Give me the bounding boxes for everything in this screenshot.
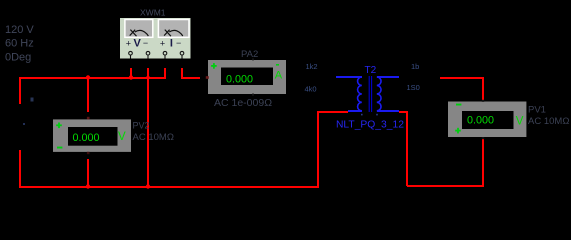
svg-text:1b: 1b <box>411 62 419 71</box>
svg-text:T2: T2 <box>365 65 377 76</box>
svg-text:PV2: PV2 <box>133 121 150 131</box>
svg-text:1S0: 1S0 <box>407 83 420 92</box>
svg-text:V: V <box>134 37 142 49</box>
svg-text:4k0: 4k0 <box>305 85 317 94</box>
svg-text:+: + <box>126 38 131 48</box>
svg-text:NLT_PQ_3_12: NLT_PQ_3_12 <box>336 119 404 130</box>
svg-text:−: − <box>176 38 181 48</box>
svg-text:0.000: 0.000 <box>73 132 100 144</box>
svg-text:AC 1e-009Ω: AC 1e-009Ω <box>214 97 272 109</box>
svg-text:+: + <box>160 38 165 48</box>
svg-text:PA2: PA2 <box>241 49 258 60</box>
svg-text:120 V: 120 V <box>5 24 34 36</box>
svg-text:V: V <box>516 115 524 127</box>
svg-text:I: I <box>170 37 173 49</box>
svg-text:0Deg: 0Deg <box>5 52 31 64</box>
svg-text:1k2: 1k2 <box>306 62 318 71</box>
svg-text:−: − <box>143 38 148 48</box>
svg-text:60 Hz: 60 Hz <box>5 38 34 50</box>
svg-text:V: V <box>118 131 126 143</box>
svg-text:A: A <box>275 70 283 82</box>
svg-text:XWM1: XWM1 <box>140 7 166 17</box>
svg-text:AC 10MΩ: AC 10MΩ <box>528 116 569 127</box>
svg-text:0.000: 0.000 <box>226 73 253 85</box>
svg-text:AC 10MΩ: AC 10MΩ <box>133 132 174 143</box>
svg-text:0.000: 0.000 <box>467 115 494 127</box>
svg-text:PV1: PV1 <box>528 105 546 116</box>
